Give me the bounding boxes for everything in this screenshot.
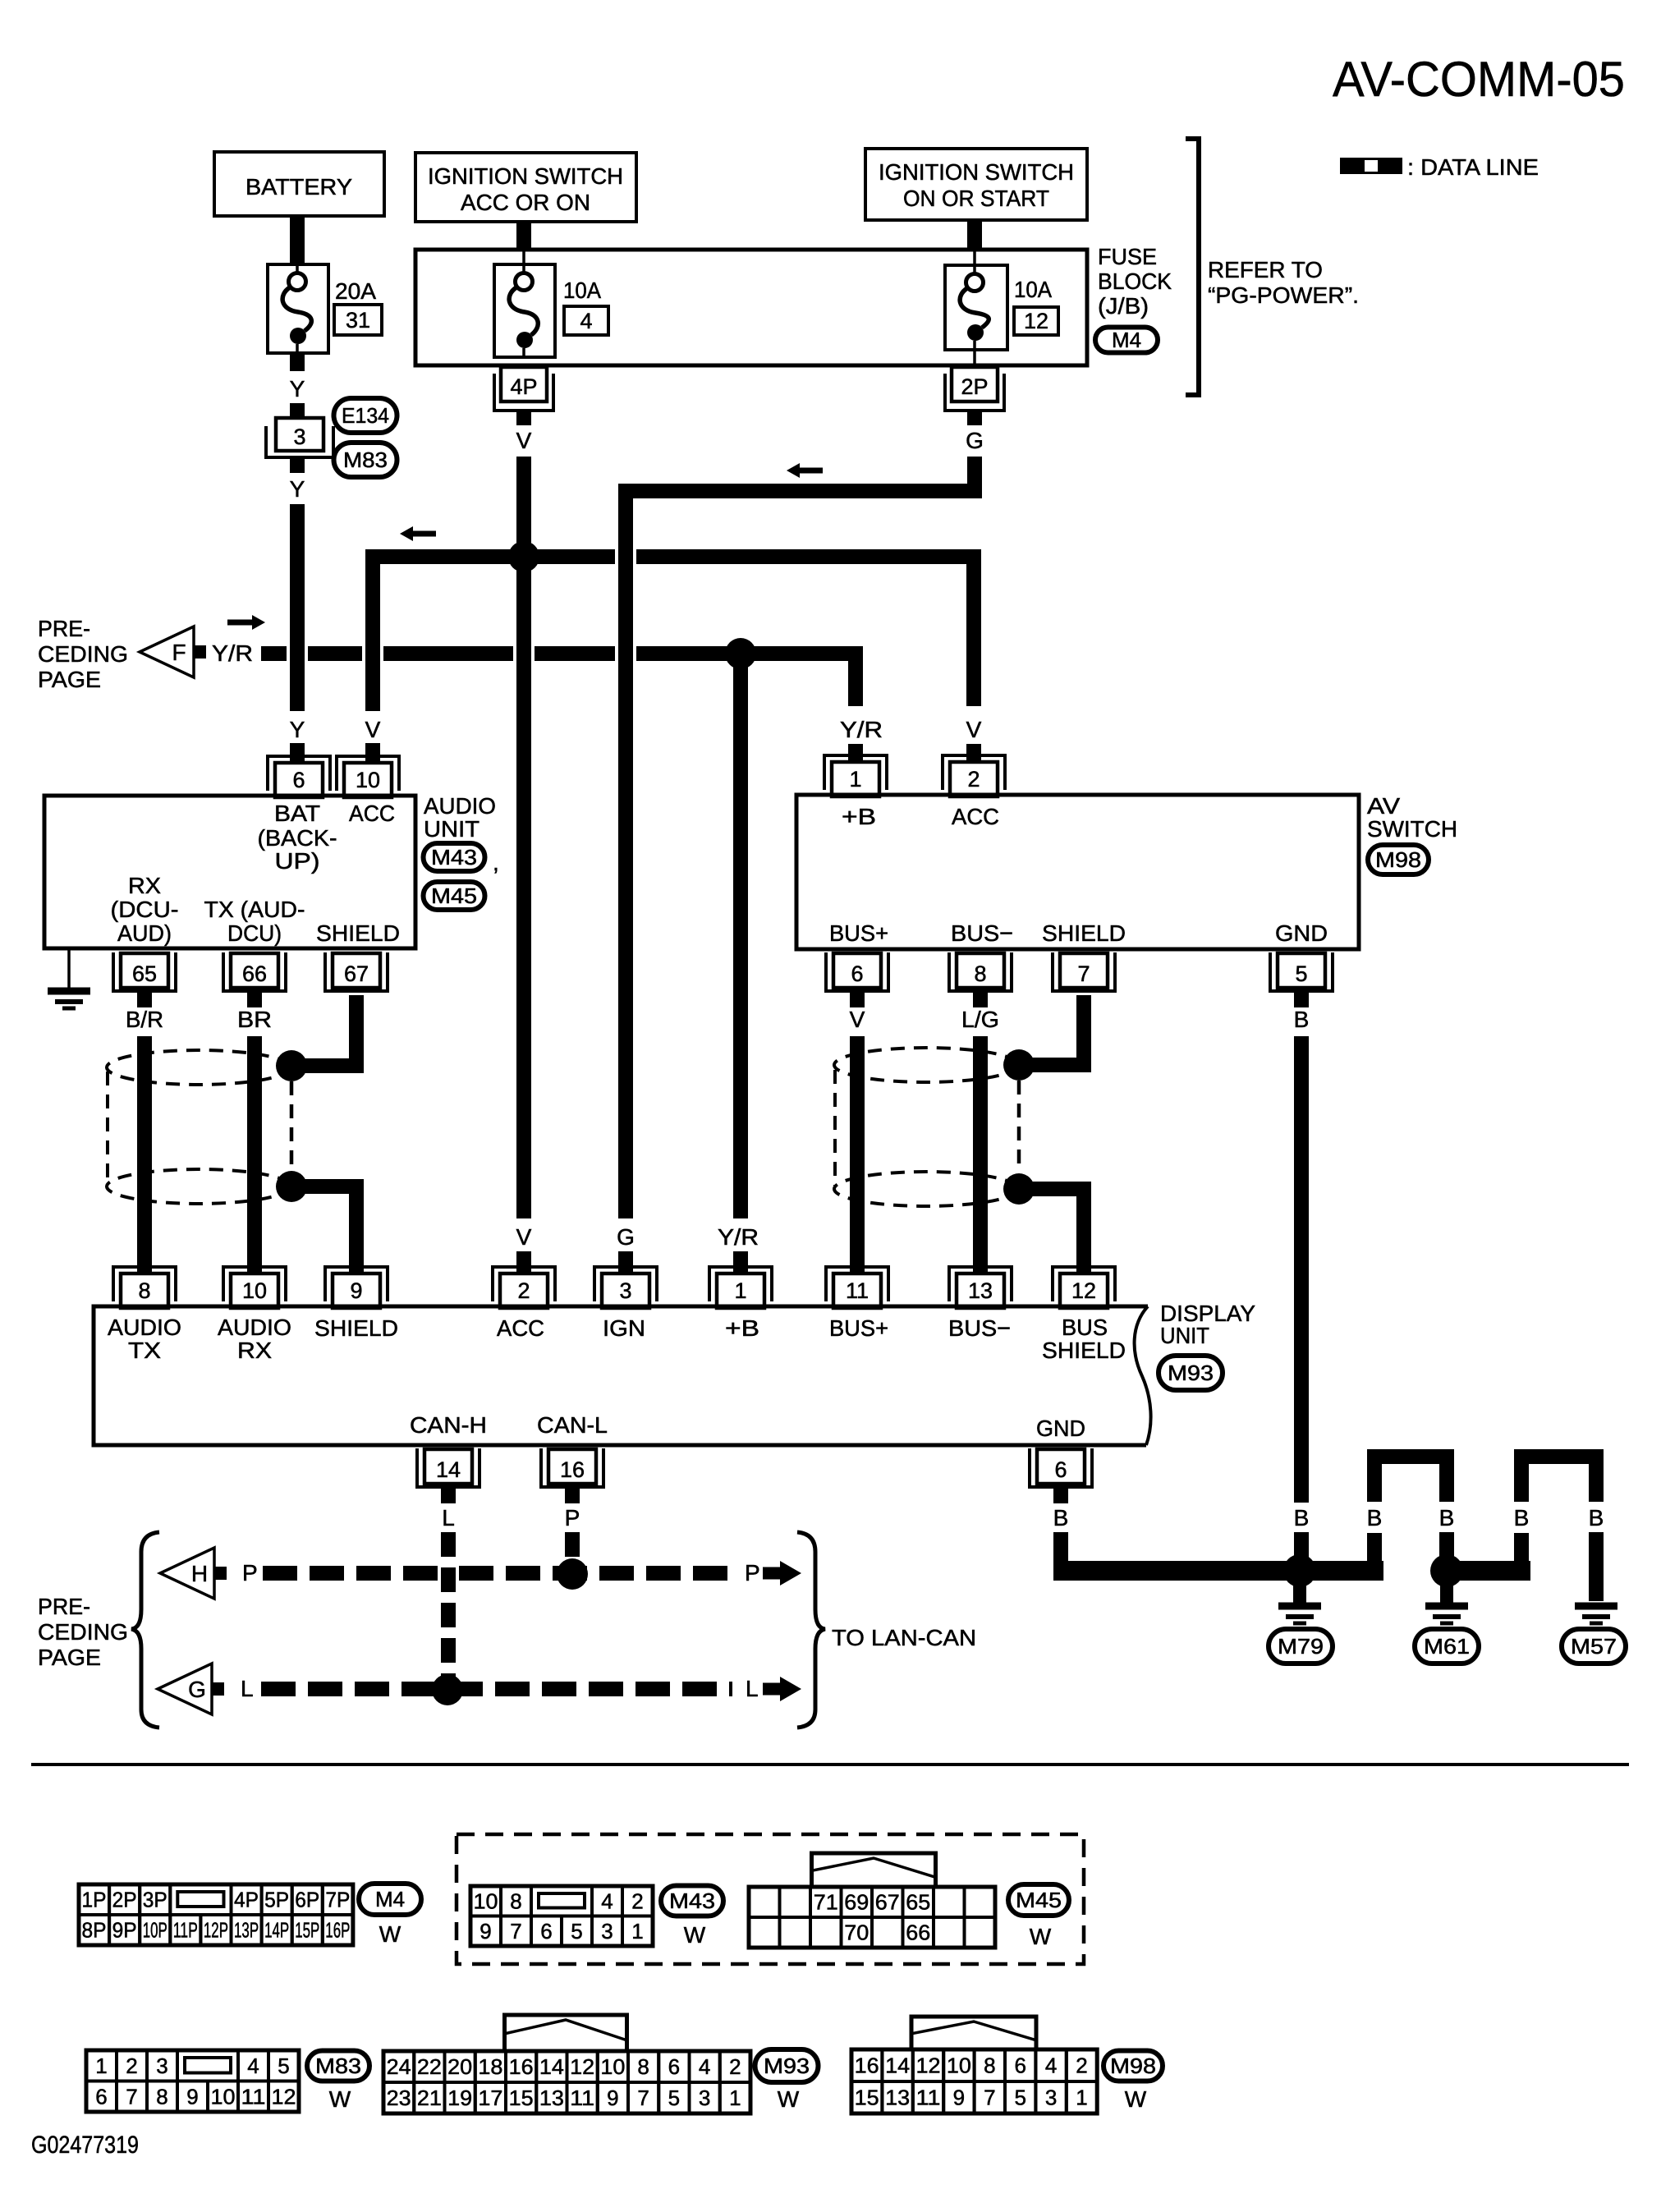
wire dashed drain left <box>290 1081 294 1171</box>
wire V bus+ down to display pin11 <box>850 1036 865 1274</box>
svg-text:M43: M43 <box>669 1888 715 1913</box>
wire display pin6 stub <box>1053 1488 1068 1503</box>
label V above AV pin2 <box>966 717 982 742</box>
svg-text:1: 1 <box>1076 2086 1087 2110</box>
svg-text:BUS+: BUS+ <box>829 1315 888 1341</box>
svg-text:L/G: L/G <box>961 1007 999 1032</box>
wire loop2 right leg to M57 <box>1589 1532 1604 1601</box>
label L below pin14 <box>442 1505 455 1531</box>
svg-text:M45: M45 <box>1016 1888 1062 1912</box>
svg-text:4: 4 <box>1045 2054 1057 2078</box>
svg-text:+B: +B <box>842 804 876 829</box>
svg-text:BR: BR <box>237 1007 272 1032</box>
pin 11 BUS+ display <box>826 1267 888 1308</box>
label DISPLAY UNIT <box>1160 1301 1255 1348</box>
label AUDIO UNIT <box>424 793 496 842</box>
svg-text:19: 19 <box>447 2086 472 2110</box>
ground symbol M61 <box>1425 1606 1468 1623</box>
fuse number 31 <box>334 305 382 335</box>
svg-text:V: V <box>365 717 381 742</box>
fuse block J/B box M4 <box>415 250 1087 365</box>
svg-text:TX (AUD-: TX (AUD- <box>204 897 305 922</box>
svg-text:B: B <box>1294 1505 1310 1531</box>
label AV SWITCH <box>1367 793 1457 842</box>
label FUSE BLOCK (J/B) <box>1098 244 1172 319</box>
pin 6 BUS+ av <box>826 952 888 991</box>
wire Y stub into pin 6 <box>290 743 305 763</box>
svg-text:9: 9 <box>479 1919 491 1944</box>
svg-text:ACC: ACC <box>497 1315 544 1341</box>
svg-text:G: G <box>966 428 984 453</box>
svg-text:IGNITION SWITCH: IGNITION SWITCH <box>879 159 1074 185</box>
wire CAN-H dashed seg1 <box>263 1566 438 1581</box>
svg-text:10: 10 <box>242 1278 267 1303</box>
svg-text:M79: M79 <box>1278 1634 1324 1659</box>
svg-text:9P: 9P <box>112 1918 137 1943</box>
svg-text:24: 24 <box>387 2054 411 2079</box>
svg-text:RX: RX <box>237 1338 272 1363</box>
label W M45 <box>1030 1924 1052 1949</box>
svg-text:2: 2 <box>126 2054 137 2078</box>
svg-text:8: 8 <box>637 2054 649 2079</box>
label SHIELD audio <box>316 920 400 946</box>
wire V stub into AV pin2 <box>966 744 981 762</box>
label TX (AUD-DCU) <box>204 897 305 946</box>
svg-text:13: 13 <box>885 2086 910 2110</box>
svg-text:10A: 10A <box>1014 277 1052 302</box>
svg-text:SHIELD: SHIELD <box>316 920 400 946</box>
ignition switch ACC-or-ON <box>415 153 636 222</box>
svg-text:5: 5 <box>278 2054 289 2078</box>
svg-text:BUS−: BUS− <box>948 1315 1011 1341</box>
connector view M45 tab <box>812 1853 936 1887</box>
svg-text:5: 5 <box>668 2086 680 2110</box>
svg-text:M4: M4 <box>375 1887 405 1911</box>
wire shield pin67 to drain dot <box>296 995 356 1066</box>
label GND display <box>1036 1416 1085 1441</box>
svg-text:13P: 13P <box>234 1918 259 1943</box>
pin 1 +B av <box>824 755 887 796</box>
label 10A fuse4 <box>563 278 601 303</box>
label ACC av <box>952 804 999 829</box>
triangle G preceding page <box>158 1664 224 1714</box>
arrow right near F <box>227 615 265 630</box>
svg-text:7: 7 <box>126 2084 137 2109</box>
connector view M83 oval <box>307 2051 369 2081</box>
wire CAN-L dashed <box>261 1682 732 1696</box>
svg-text:20: 20 <box>447 2054 472 2079</box>
shield cable left dashed <box>107 1050 291 1204</box>
ground ref M57 oval <box>1562 1629 1626 1664</box>
svg-text:3: 3 <box>1045 2086 1057 2110</box>
svg-text:10: 10 <box>356 768 380 792</box>
battery B1 <box>214 152 384 216</box>
junction dot V <box>508 541 539 572</box>
wire av pin6 stub <box>850 992 865 1007</box>
svg-text:3: 3 <box>699 2086 710 2110</box>
separator line <box>31 1763 1629 1766</box>
wire Y/R seg1 <box>261 646 287 661</box>
label P right <box>745 1560 760 1586</box>
label 20A <box>335 278 376 304</box>
svg-text:9: 9 <box>607 2086 618 2110</box>
wire G elbow <box>626 457 975 1218</box>
label RX (DCU-AUD) <box>111 873 179 946</box>
svg-text:4: 4 <box>601 1888 613 1913</box>
svg-text:8: 8 <box>974 961 986 986</box>
dashed box M43/M45 <box>457 1834 1084 1964</box>
av switch box <box>796 795 1359 949</box>
svg-text:BUS+: BUS+ <box>829 920 888 946</box>
pin 3 IGN display <box>594 1267 657 1308</box>
svg-text:3: 3 <box>293 425 305 449</box>
svg-text:M45: M45 <box>431 883 477 908</box>
connector ref M93 oval <box>1159 1356 1223 1390</box>
svg-text:CEDING: CEDING <box>38 1619 128 1645</box>
junction dot ground bus M61 <box>1430 1554 1463 1587</box>
connector view M83 grid <box>86 2050 299 2112</box>
svg-text:SHIELD: SHIELD <box>1042 1338 1126 1363</box>
junction dot CAN-H <box>557 1558 588 1590</box>
label BUS+ av <box>829 920 888 946</box>
svg-text:L: L <box>746 1676 759 1701</box>
wire Y/R down to display pin1 <box>733 654 748 1218</box>
svg-text:18: 18 <box>478 2054 502 2079</box>
svg-text:AUDIO: AUDIO <box>108 1315 181 1340</box>
legend data-line symbol <box>1340 158 1402 174</box>
wire V branch left to pin 10 <box>373 557 615 711</box>
connector ref M83 oval <box>334 443 397 477</box>
svg-text:10: 10 <box>600 2054 625 2079</box>
pin 67 SHIELD audio <box>325 952 388 991</box>
svg-text:6: 6 <box>668 2054 680 2079</box>
connector view M93 tab <box>505 2015 627 2051</box>
svg-text:66: 66 <box>242 961 267 986</box>
svg-text:15P: 15P <box>295 1918 319 1943</box>
svg-text:7: 7 <box>1077 961 1090 986</box>
svg-text:6P: 6P <box>295 1888 319 1912</box>
svg-text:Y/R: Y/R <box>212 640 253 666</box>
pin 7 SHIELD av <box>1053 952 1115 991</box>
ground symbol M79 <box>1278 1606 1321 1623</box>
svg-text:2: 2 <box>631 1888 643 1913</box>
label B/R <box>126 1007 163 1032</box>
wire CAN-H dashed seg2 <box>459 1566 732 1581</box>
svg-text:10P: 10P <box>143 1918 167 1943</box>
svg-text:L: L <box>442 1505 455 1531</box>
svg-text:L: L <box>241 1676 254 1701</box>
label B loop1 right <box>1439 1505 1455 1531</box>
label L/G bus- <box>961 1007 999 1032</box>
svg-text:ACC OR ON: ACC OR ON <box>461 190 590 215</box>
connector view M45 grid <box>749 1887 995 1948</box>
wire dashed drain right <box>1017 1081 1021 1173</box>
svg-text:M83: M83 <box>315 2054 361 2078</box>
label BAT (BACK-UP) <box>258 801 337 874</box>
svg-text:IGNITION SWITCH: IGNITION SWITCH <box>428 163 623 189</box>
svg-text:65: 65 <box>906 1890 930 1915</box>
fuse number 4 <box>564 306 608 335</box>
connector ref M43 oval <box>424 843 485 871</box>
label IGN display <box>603 1315 645 1341</box>
label BUS+ display <box>829 1315 888 1341</box>
svg-text:1: 1 <box>631 1919 643 1944</box>
svg-text:12: 12 <box>1071 1278 1096 1303</box>
label PRE-CEDING PAGE bottom <box>38 1594 128 1670</box>
wire loop1 right leg <box>1439 1532 1454 1571</box>
svg-text:6: 6 <box>1014 2054 1026 2078</box>
svg-text:69: 69 <box>844 1890 869 1915</box>
svg-text:PRE-: PRE- <box>38 1594 90 1619</box>
legend label DATA LINE <box>1407 154 1539 180</box>
connector view M98 oval <box>1104 2051 1163 2081</box>
label Y/R after F <box>212 640 253 666</box>
svg-text:BUS: BUS <box>1062 1315 1108 1340</box>
svg-text:67: 67 <box>344 961 369 986</box>
connector 3 E134/M83 <box>266 418 333 457</box>
wire av pin5 stub <box>1294 992 1309 1007</box>
svg-text:6: 6 <box>95 2084 107 2109</box>
junction dot shield-right top <box>1003 1049 1035 1081</box>
ground symbol M57 <box>1575 1606 1617 1623</box>
svg-text:6: 6 <box>540 1919 552 1944</box>
svg-text:PRE-: PRE- <box>38 616 90 641</box>
wire G stub into display pin3 <box>618 1251 633 1274</box>
svg-text:BAT: BAT <box>274 801 320 826</box>
title AV-COMM-05 <box>1333 52 1625 107</box>
wire Y/R seg2 <box>308 646 362 661</box>
connector ref E134 oval <box>334 398 397 433</box>
svg-text:+B: +B <box>725 1315 759 1341</box>
svg-text:M83: M83 <box>343 447 388 472</box>
svg-text:5P: 5P <box>264 1888 289 1912</box>
brace left preceding <box>131 1532 159 1728</box>
svg-text:BATTERY: BATTERY <box>245 174 352 200</box>
connector view M43 grid <box>470 1886 653 1946</box>
svg-text:Y: Y <box>290 717 305 742</box>
svg-text:P: P <box>745 1560 760 1586</box>
arrow CAN-H to lan-can <box>763 1561 801 1586</box>
arrow on V branch <box>400 526 436 541</box>
connector view M45 oval <box>1008 1884 1069 1916</box>
svg-text:20A: 20A <box>335 278 376 304</box>
svg-text:B: B <box>1589 1505 1604 1531</box>
connector view M98 tab <box>911 2017 1036 2049</box>
svg-text:Y: Y <box>290 376 305 402</box>
svg-text:W: W <box>778 2086 800 2112</box>
wire V stub into display pin2 <box>516 1251 531 1274</box>
svg-text:10: 10 <box>947 2054 971 2078</box>
svg-text:3: 3 <box>601 1919 613 1944</box>
svg-text:G02477319: G02477319 <box>31 2132 139 2159</box>
label Y/R above display pin1 <box>718 1224 759 1250</box>
wire drain to display pin12 <box>1023 1189 1084 1274</box>
label Y wire1 <box>290 376 305 402</box>
svg-text:M4: M4 <box>1112 328 1141 352</box>
svg-text:16: 16 <box>855 2054 879 2078</box>
svg-text:67: 67 <box>875 1890 900 1915</box>
svg-text:REFER TO: REFER TO <box>1208 257 1323 282</box>
svg-text:2: 2 <box>517 1278 530 1303</box>
pin 2 ACC display <box>493 1267 555 1308</box>
svg-text:BUS−: BUS− <box>951 920 1013 946</box>
svg-text:Y/R: Y/R <box>718 1224 759 1250</box>
label GND av <box>1275 920 1328 946</box>
svg-text:10A: 10A <box>563 278 601 303</box>
label P left <box>242 1560 258 1586</box>
svg-text:15: 15 <box>855 2086 879 2110</box>
svg-text:PAGE: PAGE <box>38 667 101 692</box>
svg-text:1: 1 <box>729 2086 741 2110</box>
label L right <box>746 1676 759 1701</box>
svg-text:9: 9 <box>953 2086 965 2110</box>
svg-text:7: 7 <box>984 2086 995 2110</box>
svg-text:14: 14 <box>539 2054 564 2079</box>
svg-text:P: P <box>242 1560 258 1586</box>
svg-text:H: H <box>191 1561 208 1586</box>
label BUS- display <box>948 1315 1011 1341</box>
label G below 2P <box>966 428 984 453</box>
wire B long down <box>1294 1036 1309 1503</box>
svg-text:V: V <box>516 428 532 453</box>
svg-text:ACC: ACC <box>349 801 395 826</box>
wire Y down to pin 6 <box>290 504 305 711</box>
connector view M4 grid <box>79 1884 353 1945</box>
svg-text:11: 11 <box>241 2084 266 2109</box>
svg-text:6: 6 <box>1054 1457 1067 1482</box>
wire 2P stub <box>967 411 982 425</box>
svg-text:UNIT: UNIT <box>424 816 479 842</box>
triangle F preceding page <box>140 626 206 677</box>
svg-text:13: 13 <box>968 1278 993 1303</box>
connector view M4 oval <box>359 1884 421 1915</box>
wire pin66 stub <box>247 992 262 1007</box>
svg-text:AV-COMM-05: AV-COMM-05 <box>1333 52 1625 107</box>
svg-text:UP): UP) <box>275 848 320 874</box>
junction dot Y/R <box>725 638 756 669</box>
pin 12 BUS SHIELD display <box>1053 1267 1115 1308</box>
svg-text:1P: 1P <box>82 1888 107 1912</box>
pin 9 SHIELD display <box>325 1267 388 1308</box>
ground M79 stub <box>1293 1585 1306 1603</box>
svg-text:: DATA LINE: : DATA LINE <box>1407 154 1539 180</box>
svg-text:M43: M43 <box>431 845 477 870</box>
svg-text:G: G <box>188 1677 206 1702</box>
junction dot ground bus M79 <box>1283 1554 1316 1587</box>
label B loop1 left <box>1367 1505 1383 1531</box>
audio unit box <box>44 796 415 948</box>
svg-text:31: 31 <box>346 308 370 333</box>
svg-text:W: W <box>329 2086 351 2112</box>
wire V stub into pin 10 <box>365 743 380 763</box>
svg-text:W: W <box>1030 1924 1052 1949</box>
wire BR down to display pin10 <box>247 1036 262 1274</box>
connector ref M45 oval <box>424 882 485 910</box>
svg-text:Y/R: Y/R <box>840 717 883 742</box>
label W M93 <box>778 2086 800 2112</box>
label W M43 <box>684 1922 706 1948</box>
wire fuse31 to node Y <box>290 353 305 371</box>
fuse F31 20A <box>268 264 328 353</box>
svg-text:70: 70 <box>844 1921 869 1945</box>
svg-text:11: 11 <box>570 2086 594 2110</box>
label SHIELD display <box>314 1315 398 1341</box>
wire av pin8 stub <box>973 992 988 1007</box>
svg-text:SHIELD: SHIELD <box>1042 920 1126 946</box>
pin 8 BUS- av <box>949 952 1012 991</box>
wire ignition1 to fuse 4 <box>516 220 531 264</box>
svg-text:CAN-H: CAN-H <box>410 1412 487 1438</box>
display unit box <box>94 1306 1151 1445</box>
svg-text:7P: 7P <box>325 1888 350 1912</box>
connector ref M4 oval <box>1095 328 1158 353</box>
svg-text:14: 14 <box>436 1457 461 1482</box>
wire V main vertical <box>516 457 531 1218</box>
junction dot shield-left top <box>276 1050 307 1081</box>
note REFER TO PG-POWER <box>1208 257 1359 308</box>
fuse number 12 <box>1014 307 1058 335</box>
svg-text:PAGE: PAGE <box>38 1645 101 1670</box>
svg-text:17: 17 <box>478 2086 502 2110</box>
wire L dashed down <box>441 1532 456 1690</box>
label Y/R above AV pin1 <box>840 717 883 742</box>
wire L/G down to display pin13 <box>973 1036 988 1274</box>
svg-text:3: 3 <box>619 1278 631 1303</box>
label P below pin16 <box>565 1505 580 1531</box>
wire drain to display pin9 <box>296 1186 356 1274</box>
label ACC display <box>497 1315 544 1341</box>
svg-text:5: 5 <box>1295 961 1307 986</box>
svg-text:B: B <box>1514 1505 1530 1531</box>
label ACC audio <box>349 801 395 826</box>
svg-text:Y: Y <box>290 476 305 502</box>
label V above display pin2 <box>516 1224 532 1250</box>
svg-text:65: 65 <box>132 961 157 986</box>
svg-text:2: 2 <box>1076 2054 1087 2078</box>
svg-text:BLOCK: BLOCK <box>1098 268 1172 294</box>
svg-text:4: 4 <box>580 309 592 333</box>
fuse F12 10A <box>945 265 1007 367</box>
svg-text:12: 12 <box>916 2054 941 2078</box>
svg-text:M98: M98 <box>1375 847 1421 872</box>
connector view M43 oval <box>661 1886 723 1916</box>
label AUDIO TX <box>108 1315 181 1363</box>
svg-text:15: 15 <box>509 2086 534 2110</box>
bracket refer-to <box>1186 139 1199 395</box>
svg-text:CEDING: CEDING <box>38 641 128 667</box>
svg-text:W: W <box>379 1921 401 1947</box>
label G above display pin3 <box>617 1224 635 1250</box>
wire loop2 top <box>1521 1457 1596 1502</box>
svg-text:AUDIO: AUDIO <box>424 793 496 819</box>
svg-text:,: , <box>493 850 499 875</box>
label BUS- av <box>951 920 1013 946</box>
svg-text:V: V <box>966 717 982 742</box>
svg-text:16P: 16P <box>325 1918 350 1943</box>
pin 66 TX audio <box>223 952 286 991</box>
ignition switch ON-or-START <box>865 149 1087 220</box>
wire B/R down to display pin8 <box>137 1036 152 1274</box>
svg-text:23: 23 <box>387 2086 411 2110</box>
wire connector3 down stub <box>290 457 305 473</box>
svg-text:GND: GND <box>1275 920 1328 946</box>
svg-text:9: 9 <box>186 2084 198 2109</box>
svg-text:V: V <box>850 1007 865 1032</box>
pin 6 GND display <box>1030 1448 1092 1487</box>
svg-text:RX: RX <box>128 873 161 898</box>
wire Y/R stub into display pin1 <box>733 1251 748 1274</box>
svg-text:1: 1 <box>95 2054 107 2078</box>
